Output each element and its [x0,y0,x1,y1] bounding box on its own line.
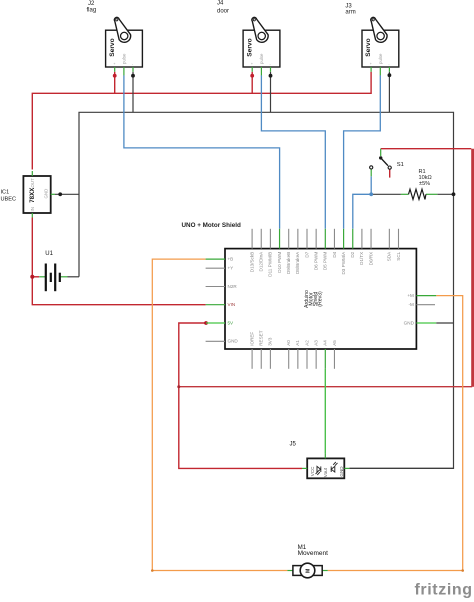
svg-text:IN: IN [30,207,35,211]
shield bottom pins IOREF..A5 [252,349,334,369]
svg-text:Vout: Vout [323,467,328,477]
node orange corner right [461,569,464,572]
wire blue servo J3 pulse to shield D3 [344,75,381,229]
node orange corner left [151,569,154,572]
svg-text:+B: +B [228,256,234,261]
voltage regulator IC1 UBEC 78XX [23,171,55,218]
svg-text:GND: GND [404,320,415,325]
wire servo J4 - to gnd bus [270,72,272,113]
node R1 to GND bus junction [452,192,456,196]
svg-text:door: door [217,8,229,14]
wire servo J4 + to bus [251,72,253,94]
shield left pins [206,259,225,341]
wire blue servo J4 pulse to shield D5 [261,75,325,229]
svg-text:N2R: N2R [228,284,238,289]
wire black R1 right to gnd vertical [437,193,453,195]
svg-text:UBEC: UBEC [1,197,17,203]
svg-text:A2: A2 [304,340,309,346]
svg-text:Movement: Movement [298,550,329,557]
svg-text:78XX: 78XX [29,187,36,203]
svg-text:D0/RX: D0/RX [368,252,373,266]
motor M1 [287,563,327,578]
wire servo J3 - to gnd bus [388,72,390,113]
WIRES-LAYER [32,72,472,571]
svg-text:J2: J2 [88,1,95,7]
svg-text:GND: GND [339,466,344,477]
node S1/R1/D2 blue junction [369,192,373,196]
wire black shield GND pin to gnd vertical [436,322,453,324]
svg-text:arm: arm [345,9,355,15]
svg-text:D5 PWM: D5 PWM [323,252,328,271]
wire blue S1 throw to node R1/D2 [370,176,372,194]
servo J3 (arm) [362,17,399,75]
battery U1 [39,264,67,292]
svg-text:RESET: RESET [259,330,264,346]
svg-text:OUT: OUT [30,178,35,188]
svg-text:D12/DinA: D12/DinA [259,251,264,272]
svg-text:A4: A4 [323,340,328,346]
svg-text:+Y: +Y [228,266,234,271]
svg-text:VIN: VIN [228,302,236,307]
svg-text:D13/SckB: D13/SckB [249,252,254,272]
servo J4 (door) [243,17,280,75]
svg-text:VCC: VCC [310,466,315,476]
wire gray J5 GND to gnd vertical [349,467,453,469]
svg-text:J5: J5 [290,442,297,448]
shield pin labels [228,251,415,346]
svg-text:D4: D4 [332,251,337,257]
node servo J3 - bendpoint [388,73,392,77]
JUNCTION-DOTS [30,73,464,572]
svg-text:D10 PWM: D10 PWM [277,252,282,273]
svg-text:J4: J4 [217,1,224,7]
svg-text:D11 PWM/B: D11 PWM/B [268,252,273,277]
shield right pins [416,296,436,323]
node servo J2 + bendpoint [113,74,117,78]
node battery + junction [30,275,34,279]
svg-text:fritzing: fritzing [415,582,473,599]
wire red shield 5V to J5 Vcc [179,323,302,468]
svg-text:D6 PWM: D6 PWM [313,252,318,271]
svg-text:A1: A1 [295,340,300,346]
svg-text:D3 PWM/A: D3 PWM/A [341,251,346,275]
svg-text:GND: GND [44,189,49,199]
wire servo J2 - to gnd bus [132,72,134,113]
wire orange shield +B to motor M1 left [152,259,287,570]
svg-text:U1: U1 [45,251,53,257]
svg-text:GND: GND [228,339,239,344]
wire black ground bus from battery- to right side [79,112,454,468]
svg-text:±5%: ±5% [419,181,430,187]
node 5V branch junction [177,385,180,388]
sensor J5 [302,453,349,478]
wire blue node to shield D2 [353,194,371,229]
svg-text:(Rev3): (Rev3) [318,291,324,307]
arduino uno + motor shield U? [206,229,437,369]
svg-text:A3: A3 [313,340,318,346]
servo J2 (flag) [106,17,143,75]
wire red battery + stub [32,276,39,278]
wire red IC1 IN to battery + [31,218,33,277]
svg-text:IOREF: IOREF [249,332,254,346]
wire black node to R1 left [371,193,401,195]
svg-text:IC1: IC1 [1,190,10,196]
wire red 6V bus from IC1 OUT to servo supplies [32,72,371,170]
node servo J2 - bendpoint [131,74,135,78]
svg-text:D1/TX: D1/TX [359,252,364,265]
wire battery - to gnd vertical [68,276,80,278]
wire green shield A4 to J5 Vout [324,369,326,454]
svg-text:-M: -M [409,302,415,307]
shield top pins D13..SCL [252,229,398,249]
svg-text:A5: A5 [332,340,337,346]
wire red 5V branch to S1 (crimson row) [179,386,472,388]
wire red S1 common feed [381,148,472,150]
node shield 5V junction [204,321,208,325]
svg-text:D8/BrakeA: D8/BrakeA [295,251,300,274]
node servo J4 - bendpoint [269,74,273,78]
svg-text:D7: D7 [304,251,309,257]
svg-text:SCL: SCL [396,251,401,260]
svg-text:UNO + Motor Shield: UNO + Motor Shield [182,222,241,229]
svg-text:D2: D2 [350,251,355,257]
wire red thick right-edge vertical [471,149,474,387]
switch S1 [370,149,392,178]
node servo J4 + bendpoint [250,74,254,78]
svg-text:flag: flag [87,8,97,14]
svg-text:SDA: SDA [387,251,392,261]
svg-text:A0: A0 [286,340,291,346]
resistor R1 10k [401,189,437,199]
svg-text:5V: 5V [228,320,235,325]
wire orange shield +M to motor M1 right [328,296,463,571]
wire servo J2 + to bus [114,72,116,94]
wire blue servo J2 pulse to shield D10 [124,75,280,229]
svg-text:M: M [306,569,312,573]
svg-text:3V3: 3V3 [268,337,273,346]
svg-text:+M: +M [407,293,414,298]
svg-text:D9/BrakeB: D9/BrakeB [286,252,291,274]
shield center label [304,290,324,308]
wire red battery + to shield VIN [32,277,205,305]
svg-text:S1: S1 [397,162,404,168]
wire IC1 GND to gnd bus [55,193,79,195]
node IC1 GND junction [58,192,62,196]
